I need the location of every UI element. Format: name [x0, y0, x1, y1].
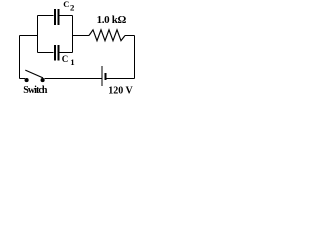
svg-text:Switch: Switch	[23, 85, 48, 96]
svg-text:1.0 kΩ: 1.0 kΩ	[97, 14, 127, 26]
svg-text:120 V: 120 V	[108, 85, 133, 96]
svg-text:C: C	[63, 0, 69, 9]
svg-text:1: 1	[70, 57, 74, 67]
svg-text:C: C	[62, 54, 68, 64]
svg-text:2: 2	[70, 3, 75, 13]
